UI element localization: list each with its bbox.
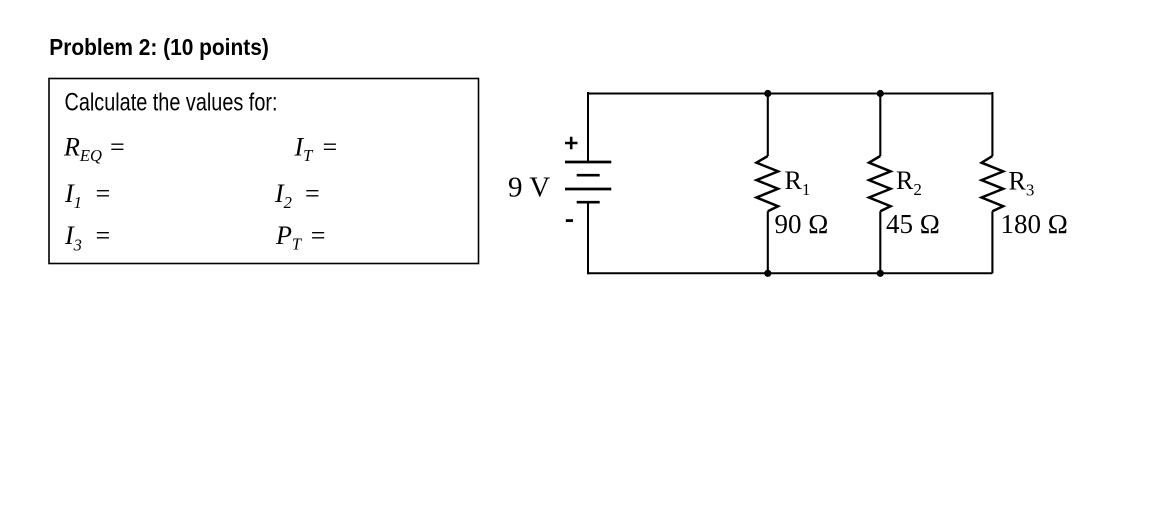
junction node top R1 bbox=[764, 90, 771, 97]
wire top rail bbox=[588, 93, 992, 95]
wire R2 bottom lead bbox=[879, 211, 881, 273]
svg-text:R3: R3 bbox=[1009, 167, 1035, 200]
svg-text:I1 =: I1 = bbox=[64, 179, 111, 212]
svg-text:I3 =: I3 = bbox=[64, 221, 111, 254]
svg-text:R2: R2 bbox=[896, 166, 922, 199]
battery V1 plate long top bbox=[565, 161, 611, 164]
battery V1 plate short bbox=[577, 174, 600, 177]
resistor R3 bbox=[982, 156, 1004, 211]
svg-text:45 Ω: 45 Ω bbox=[886, 209, 940, 239]
svg-text:I2 =: I2 = bbox=[274, 179, 321, 212]
svg-text:9 V: 9 V bbox=[508, 171, 550, 203]
svg-text:180 Ω: 180 Ω bbox=[1001, 209, 1068, 239]
resistor R1 bbox=[757, 156, 779, 211]
polarity plus bbox=[565, 137, 578, 149]
wire bottom rail bbox=[588, 272, 992, 274]
battery V1 plate short bottom bbox=[577, 201, 600, 204]
junction node bottom R1 bbox=[764, 270, 771, 277]
junction node top R2 bbox=[877, 90, 884, 97]
answer box bbox=[49, 79, 479, 264]
resistor R2 bbox=[869, 156, 891, 211]
wire R1 bottom lead bbox=[767, 211, 769, 273]
polarity minus bbox=[566, 219, 573, 222]
junction node bottom R2 bbox=[877, 270, 884, 277]
wire R1 top lead bbox=[767, 92, 769, 156]
svg-text:PT =: PT = bbox=[275, 221, 327, 254]
svg-text:Problem 2: (10 points): Problem 2: (10 points) bbox=[49, 34, 268, 60]
battery V1 plate long bbox=[565, 188, 611, 191]
wire R3 top lead bbox=[991, 92, 993, 156]
wire battery bottom lead bbox=[587, 202, 589, 274]
wire battery top lead bbox=[587, 92, 589, 162]
svg-text:REQ =: REQ = bbox=[63, 132, 126, 165]
svg-text:90 Ω: 90 Ω bbox=[775, 209, 829, 239]
wire R2 top lead bbox=[879, 92, 881, 156]
wire R3 bottom lead bbox=[991, 211, 993, 273]
svg-text:IT =: IT = bbox=[294, 132, 339, 165]
svg-text:Calculate the values for:: Calculate the values for: bbox=[65, 89, 278, 117]
svg-text:R1: R1 bbox=[785, 166, 811, 199]
